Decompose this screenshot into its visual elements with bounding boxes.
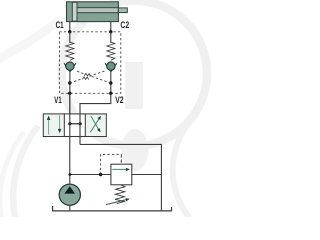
watermark middle rectangle	[125, 62, 143, 109]
node right border junction	[109, 92, 112, 95]
node C2 junction dot	[109, 30, 112, 33]
node right pilot junction	[109, 81, 112, 84]
cylinder rod	[77, 8, 127, 13]
valve left position up arrow	[47, 116, 51, 135]
valve right position crossed arrows	[90, 116, 101, 133]
wire pump-to-relief branch	[70, 174, 111, 176]
watermark background shapes	[0, 1, 207, 218]
spring left counterbalance	[66, 42, 74, 60]
pump suction stub	[69, 206, 71, 211]
check ball left seat	[64, 63, 76, 72]
check ball right	[107, 62, 115, 70]
label V2	[115, 95, 123, 106]
valve centre blocked symbol (dot-bar-dot)	[68, 122, 81, 125]
svg-text:V2: V2	[115, 95, 123, 106]
check ball right seat	[105, 63, 117, 72]
wire V2 elbow	[80, 93, 111, 114]
pilot line right-to-left (dashed diagonal)	[92, 76, 111, 83]
wire T to right frame	[80, 144, 161, 211]
check ball left	[66, 62, 74, 70]
wire left branch lower	[69, 72, 71, 114]
pump circle	[59, 184, 80, 205]
wire right branch upper	[110, 32, 112, 43]
svg-text:C2: C2	[120, 20, 129, 31]
node relief pilot junction	[99, 173, 102, 176]
cylinder piston	[72, 2, 77, 21]
valve left position down arrow	[58, 115, 62, 133]
watermark ring A	[62, 1, 207, 146]
pilot line left-to-right (dashed diagonal)	[70, 79, 82, 83]
relief valve adjust arrow	[106, 198, 130, 204]
label C1	[56, 20, 64, 31]
cylinder barrel	[67, 2, 119, 22]
svg-text:C1: C1	[56, 20, 64, 31]
node pump branch junction	[69, 173, 72, 176]
pilot line relief (dashed)	[101, 154, 122, 174]
watermark ring B inner arc	[0, 132, 24, 218]
relief valve spring	[115, 185, 125, 204]
watermark center blob	[122, 129, 149, 171]
wire right branch lower	[110, 72, 112, 94]
directional valve outer box	[43, 114, 106, 137]
wire C1 stub	[69, 21, 71, 32]
wire left branch upper	[69, 32, 71, 43]
wire C2 stub	[110, 21, 112, 32]
wire B/T line through valve	[79, 114, 81, 144]
node C1 junction dot	[68, 30, 71, 33]
relief valve outlet wire	[132, 174, 162, 176]
node left pilot junction	[68, 81, 71, 84]
valve divider right	[84, 114, 86, 137]
watermark top-left band	[0, 20, 60, 60]
valve divider left	[63, 114, 65, 137]
svg-text:V1: V1	[54, 95, 62, 106]
pilot drop into relief valve	[120, 154, 122, 164]
relief valve body	[111, 164, 132, 185]
pilot spring lower (small zigzag)	[82, 77, 88, 80]
label C2	[120, 20, 129, 31]
label V1	[54, 95, 62, 106]
relief valve flow arrow	[112, 168, 130, 171]
spring right counterbalance	[107, 42, 115, 60]
pilot spring upper (small zigzag)	[84, 73, 90, 76]
counterbalance valve dashed enclosure	[59, 32, 120, 94]
watermark ring B arc	[13, 126, 38, 218]
wire V1 / A line through valve down to pump (P)	[69, 93, 71, 184]
pump triangle	[64, 186, 75, 193]
watermark ring C arc	[173, 114, 197, 218]
tank trough	[53, 206, 172, 211]
node left border junction	[68, 92, 71, 95]
